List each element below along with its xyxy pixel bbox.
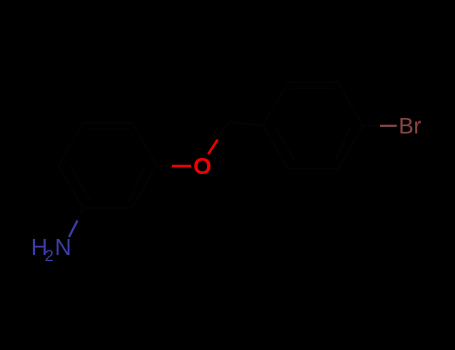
bond C1-N (nitrogen half, blue) [69, 221, 78, 238]
left benzene ring (aniline ring, black-on-black skeleton) [58, 123, 156, 208]
bond O-CH2 (oxygen half, red) [208, 140, 217, 155]
red speck on r hook [418, 121, 420, 123]
bond CH2-ring (black) [229, 122, 263, 126]
svg-text:2: 2 [45, 248, 54, 265]
svg-text:Br: Br [399, 113, 422, 138]
bond O-CH2 (carbon half, black) [218, 122, 230, 140]
bond ring-O (carbon half, black) [157, 165, 172, 167]
bond ring-Br (bromine half, dark red) [380, 125, 397, 127]
bond C1-N (carbon half, black) [77, 208, 83, 221]
right benzene ring (bromophenyl ring, black-on-black skeleton) [263, 82, 363, 169]
svg-text:O: O [193, 153, 211, 179]
bond ring-Br (carbon half, black) [363, 125, 380, 127]
amine label H2N [31, 234, 71, 265]
bond ring-O (oxygen half, red) [172, 165, 191, 167]
svg-text:N: N [55, 234, 72, 260]
